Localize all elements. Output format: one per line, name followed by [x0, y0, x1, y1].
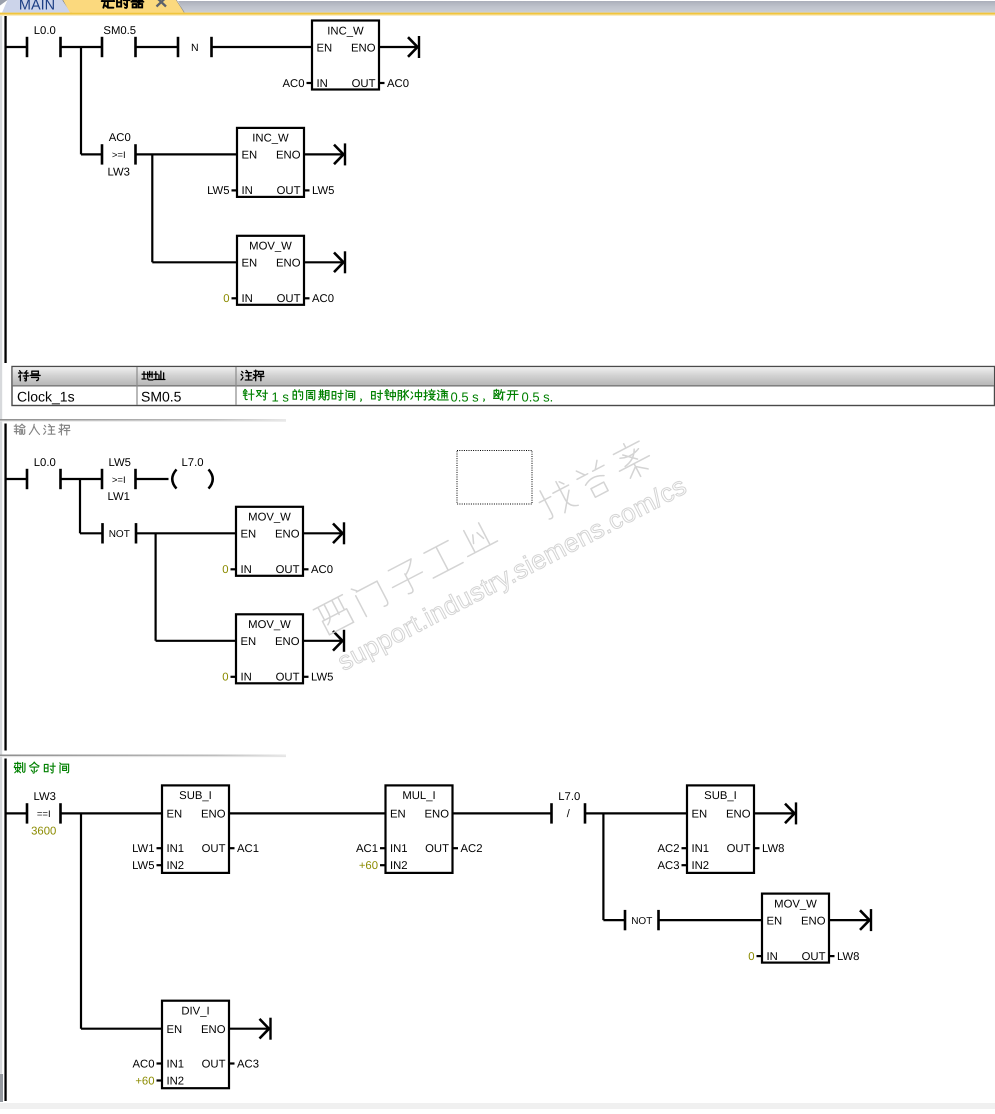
svg-text:==I: ==I	[37, 809, 51, 820]
svg-text:EN: EN	[692, 809, 708, 821]
symbol table	[12, 367, 995, 406]
wire ENO to arrow (net2 rung3)	[303, 640, 341, 642]
wire DIV_I ENO to arrow	[229, 1028, 268, 1030]
wire branch to comparison contact	[81, 153, 102, 155]
svg-text:OUT: OUT	[202, 1058, 226, 1070]
svg-text:IN2: IN2	[167, 1075, 185, 1087]
svg-text:ENO: ENO	[351, 42, 376, 54]
svg-text:3600: 3600	[31, 826, 56, 838]
wire branch to MOV_W (2) EN	[156, 640, 236, 642]
net3 rung3 continuation arrow	[260, 1018, 272, 1040]
row comment green	[243, 390, 254, 401]
svg-text:MOV_W: MOV_W	[248, 512, 291, 524]
svg-text:AC0: AC0	[109, 132, 131, 144]
wire from N contact to INC_W EN	[212, 46, 313, 48]
svg-text:MOV_W: MOV_W	[248, 619, 291, 631]
branch wire down net2 rung1 to rung2	[79, 479, 81, 533]
svg-text:>=I: >=I	[112, 150, 126, 161]
contact NOT contact	[101, 523, 137, 543]
box MOV_W U4	[222, 507, 333, 576]
wire ENO(2) to arrow	[304, 153, 342, 155]
net3 rung2 continuation arrow	[860, 909, 872, 931]
svg-text:L7.0: L7.0	[558, 791, 580, 803]
svg-text:OUT: OUT	[276, 564, 300, 576]
svg-text:IN1: IN1	[167, 1058, 185, 1070]
svg-text:EN: EN	[390, 809, 406, 821]
svg-text:ENO: ENO	[425, 809, 450, 821]
selection rectangle (dotted)	[457, 451, 532, 505]
svg-text:EN: EN	[241, 529, 257, 541]
wire ENO to arrow (net3 rung2)	[829, 919, 868, 921]
wire comparison to coil	[136, 478, 169, 480]
svg-text:IN: IN	[242, 185, 253, 197]
svg-text:AC2: AC2	[461, 843, 483, 855]
branch wire down net2 rung2 to rung3	[155, 533, 157, 641]
network 2 title 输入注释	[14, 424, 70, 435]
svg-text:AC2: AC2	[658, 843, 680, 855]
contact comparison LW5 >=I LW1	[101, 457, 137, 503]
contact L0.0	[26, 25, 62, 57]
wire MUL_I ENO to L7.0 NC contact	[453, 812, 552, 814]
svg-text:OUT: OUT	[802, 951, 826, 963]
rung2 continuation arrow	[334, 143, 346, 165]
wire comparison to INC_W (2) EN with junction	[136, 153, 238, 155]
separator groove above network 3	[0, 755, 286, 757]
svg-text:IN: IN	[317, 78, 328, 90]
svg-text:OUT: OUT	[425, 843, 449, 855]
header 地址	[142, 371, 153, 380]
wire branch to MOV_W EN	[152, 261, 237, 263]
svg-text:0: 0	[748, 951, 754, 963]
svg-text:EN: EN	[167, 1024, 183, 1036]
wire NOT to MOV_W EN with junction	[136, 532, 236, 534]
svg-text:LW8: LW8	[837, 951, 859, 963]
box INC_W U2	[207, 128, 334, 197]
svg-text:EN: EN	[241, 636, 257, 648]
svg-text:LW8: LW8	[762, 843, 784, 855]
svg-text:IN1: IN1	[692, 843, 710, 855]
header 符号	[19, 371, 29, 381]
svg-text:AC3: AC3	[237, 1058, 259, 1070]
svg-text:AC3: AC3	[658, 860, 680, 872]
svg-text:EN: EN	[242, 258, 258, 270]
svg-text:MUL_I: MUL_I	[402, 790, 435, 802]
wire between SM0.5 and N contact	[136, 46, 179, 48]
wire branch to DIV_I EN	[81, 1028, 162, 1030]
svg-text:L0.0: L0.0	[34, 457, 56, 469]
header 注释	[241, 370, 252, 380]
svg-text:AC0: AC0	[283, 78, 305, 90]
rung3 continuation arrow	[334, 251, 346, 273]
svg-text:ENO: ENO	[726, 809, 751, 821]
svg-text:AC1: AC1	[356, 843, 378, 855]
svg-text:OUT: OUT	[277, 293, 301, 305]
wire branch to NOT contact	[80, 532, 103, 534]
contact SM0.5	[101, 25, 137, 57]
svg-text:ENO: ENO	[801, 915, 826, 927]
wire L7.0 to SUB_I(2) EN (branch junction)	[585, 812, 687, 814]
svg-text:LW1: LW1	[132, 843, 154, 855]
branch wire down from rung2 to rung3	[151, 154, 153, 262]
box MUL_I U7	[356, 785, 482, 873]
svg-text:AC0: AC0	[387, 78, 409, 90]
net3 rung1 continuation arrow	[785, 802, 797, 824]
svg-text:L7.0: L7.0	[182, 457, 204, 469]
svg-text:AC0: AC0	[312, 293, 334, 305]
svg-text:EN: EN	[767, 915, 783, 927]
svg-text:IN1: IN1	[390, 843, 408, 855]
svg-text:DIV_I: DIV_I	[181, 1006, 209, 1018]
contact L0.0 (net2)	[26, 457, 62, 489]
svg-text:ENO: ENO	[275, 529, 300, 541]
wire branch to NOT contact (net3)	[603, 919, 625, 921]
svg-text:Clock_1s: Clock_1s	[17, 389, 75, 405]
svg-text:OUT: OUT	[277, 185, 301, 197]
svg-text:IN2: IN2	[390, 860, 408, 872]
contact NC contact L7.0	[550, 791, 586, 823]
box MOV_W U9	[748, 894, 859, 963]
svg-text:SM0.5: SM0.5	[141, 389, 182, 405]
svg-text:OUT: OUT	[352, 78, 376, 90]
svg-text:OUT: OUT	[276, 672, 300, 684]
svg-text:LW5: LW5	[207, 185, 229, 197]
branch wire down to DIV_I rung	[80, 813, 82, 1028]
branch wire down from rung1 to rung2	[80, 47, 82, 154]
coil L7.0	[172, 457, 213, 489]
svg-text:INC_W: INC_W	[327, 25, 364, 37]
svg-text:IN: IN	[767, 951, 778, 963]
svg-text:SUB_I: SUB_I	[179, 790, 212, 802]
svg-text:SM0.5: SM0.5	[103, 25, 136, 37]
svg-text:ENO: ENO	[201, 809, 226, 821]
wire between L0.0 and SM0.5 (branch junction)	[61, 46, 103, 48]
wire rung1 net2	[5, 478, 27, 480]
wire L0.0 to comparison (branch junction)	[61, 478, 103, 480]
svg-text:MOV_W: MOV_W	[249, 241, 292, 253]
svg-text:INC_W: INC_W	[252, 133, 289, 145]
wire SUB_I ENO to MUL_I EN	[229, 812, 386, 814]
wire NOT to MOV_W EN (net3)	[659, 919, 763, 921]
wire comparison to SUB_I EN (branch junction)	[61, 812, 163, 814]
box MOV_W U5	[222, 614, 333, 683]
svg-text:IN: IN	[242, 293, 253, 305]
separator groove above network 2	[0, 419, 286, 421]
svg-text:OUT: OUT	[202, 843, 226, 855]
svg-text:0: 0	[222, 564, 228, 576]
box SUB_I U8	[658, 785, 785, 873]
contact NOT contact (net3)	[624, 910, 660, 930]
svg-text:+60: +60	[359, 860, 378, 872]
svg-text:LW5: LW5	[132, 860, 154, 872]
inactive tab MAIN	[0, 0, 72, 13]
svg-text:ENO: ENO	[201, 1024, 226, 1036]
branch wire down after L7.0 to NOT rung	[602, 813, 604, 920]
net2 rung2 continuation arrow	[333, 522, 345, 544]
svg-text:AC1: AC1	[237, 843, 259, 855]
svg-text:IN1: IN1	[167, 843, 185, 855]
svg-text:LW3: LW3	[34, 791, 56, 803]
svg-text:EN: EN	[242, 150, 258, 162]
contact comparison AC0 >=I LW3	[101, 132, 137, 178]
box SUB_I U6	[132, 785, 259, 873]
box MOV_W U3	[223, 236, 334, 305]
svg-text:IN: IN	[241, 672, 252, 684]
window left border	[0, 16, 3, 1102]
svg-text:LW1: LW1	[108, 491, 130, 503]
box INC_W U1	[283, 21, 409, 90]
svg-text:ENO: ENO	[276, 258, 301, 270]
svg-text:IN: IN	[241, 564, 252, 576]
active tab yellow strip	[0, 0, 995, 16]
svg-text:EN: EN	[317, 42, 333, 54]
svg-text:L0.0: L0.0	[34, 25, 56, 37]
tab bar background right segment	[176, 0, 995, 13]
svg-text:MOV_W: MOV_W	[774, 898, 817, 910]
svg-text:0: 0	[222, 672, 228, 684]
svg-text:SUB_I: SUB_I	[704, 790, 737, 802]
contact negative edge N	[177, 37, 213, 57]
watermark 西门子工业 找答案	[310, 427, 691, 676]
svg-text:LW5: LW5	[109, 457, 131, 469]
svg-text:LW5: LW5	[311, 672, 333, 684]
svg-text:AC0: AC0	[133, 1058, 155, 1070]
window bottom strip	[0, 1103, 995, 1109]
svg-text:+60: +60	[135, 1075, 154, 1087]
active tab 定时器 with close button	[63, 0, 184, 13]
svg-text:IN2: IN2	[692, 860, 710, 872]
svg-text:LW5: LW5	[312, 185, 334, 197]
svg-text:EN: EN	[167, 809, 183, 821]
power rail network 3	[4, 759, 6, 1102]
svg-text:NOT: NOT	[631, 916, 652, 927]
svg-text:0: 0	[223, 293, 229, 305]
svg-text:NOT: NOT	[109, 529, 130, 540]
power rail network 1	[4, 16, 6, 363]
svg-text:AC0: AC0	[311, 564, 333, 576]
svg-text:0.5 s: 0.5 s	[451, 389, 480, 404]
wire ENO to arrow	[379, 46, 416, 48]
svg-text:OUT: OUT	[727, 843, 751, 855]
svg-text:ENO: ENO	[275, 636, 300, 648]
svg-text:0.5 s.: 0.5 s.	[522, 389, 554, 404]
box DIV_I U10	[133, 1001, 259, 1088]
svg-text:LW3: LW3	[108, 167, 130, 179]
contact comparison LW3 ==I 3600	[26, 791, 62, 823]
rung1 continuation arrow	[408, 36, 420, 58]
wire rung1 from rail to contact L0.0	[5, 46, 27, 48]
power rail network 2	[4, 424, 6, 751]
wire SUB_I(2) ENO to arrow	[754, 812, 793, 814]
net2 rung3 continuation arrow	[333, 630, 345, 652]
svg-text:>=I: >=I	[112, 475, 126, 486]
network 3 title 剩余时间	[14, 762, 68, 773]
wire ENO(3) to arrow	[304, 261, 342, 263]
wire net3 rung1	[5, 812, 27, 814]
svg-text:N: N	[191, 42, 199, 54]
wire ENO to arrow (net2 rung2)	[303, 532, 341, 534]
svg-text:1 s: 1 s	[272, 389, 290, 404]
svg-text:IN2: IN2	[167, 860, 185, 872]
svg-text:ENO: ENO	[276, 150, 301, 162]
